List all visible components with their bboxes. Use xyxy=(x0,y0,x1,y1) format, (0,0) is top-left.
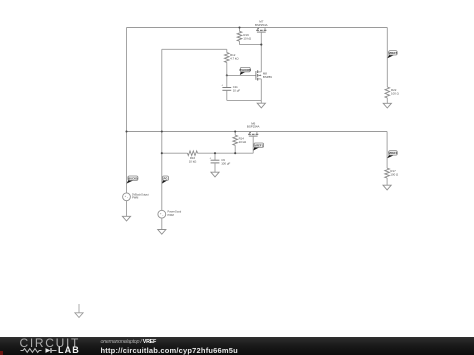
wire rail2 (PowerGood) xyxy=(161,49,163,210)
svg-text:+: + xyxy=(221,84,223,88)
resistor R19 10k xyxy=(237,28,252,45)
ground under R17 xyxy=(383,185,391,190)
transistor M8 (NMOS BSP89) xyxy=(256,70,272,80)
wire gate run xyxy=(198,152,254,154)
wire M6 gate line xyxy=(252,136,254,153)
svg-text:BUCK5: BUCK5 xyxy=(128,176,138,180)
svg-text:10 kΩ: 10 kΩ xyxy=(243,37,251,41)
wire V2 to ground xyxy=(161,218,163,229)
svg-text:BSP254A: BSP254A xyxy=(247,125,260,129)
node gate junction xyxy=(260,44,262,46)
flag net PG xyxy=(162,180,167,184)
svg-text:100 Ω: 100 Ω xyxy=(391,92,400,96)
flag net BUCK5 xyxy=(127,180,134,184)
svg-text:4.7 kΩ: 4.7 kΩ xyxy=(230,56,239,60)
wire M8 gate wire xyxy=(227,74,256,76)
svg-text:10 kΩ: 10 kΩ xyxy=(239,140,247,144)
node gate/cap junction xyxy=(226,74,228,76)
svg-text:BSP254A: BSP254A xyxy=(255,23,268,27)
svg-text:5VBuckOutput: 5VBuckOutput xyxy=(132,192,149,196)
node rail2 crossing xyxy=(161,130,163,132)
ground under M8 xyxy=(260,100,262,103)
svg-text:100 µF: 100 µF xyxy=(221,162,230,166)
wire M8 source down xyxy=(260,79,262,101)
wire cap to ground run xyxy=(227,99,261,101)
voltage source V1 5VBuckOutput xyxy=(123,192,149,200)
svg-text:-: - xyxy=(127,195,128,199)
wire M7 gate line xyxy=(260,32,262,72)
svg-text:PGOOD5: PGOOD5 xyxy=(240,68,252,72)
node R14 bottom junction xyxy=(234,152,236,154)
node rail2 run junction xyxy=(161,152,163,154)
flag net VREF1 xyxy=(253,147,259,151)
ground under R22 xyxy=(383,103,391,108)
flag net PGOOD5 xyxy=(240,71,246,75)
svg-text:VREF5: VREF5 xyxy=(389,51,398,55)
svg-text:PG: PG xyxy=(164,176,168,180)
ground (floating) xyxy=(75,304,83,318)
capacitor C9 100uF xyxy=(209,153,230,172)
wire left rail (5V buck) xyxy=(126,28,128,193)
svg-text:-: - xyxy=(162,213,163,217)
wire V1 to ground xyxy=(126,201,128,217)
ground under C9 xyxy=(211,172,219,177)
node C9 junction xyxy=(214,152,216,154)
svg-text:VREF1: VREF1 xyxy=(254,143,263,147)
node R14 top junction xyxy=(234,130,236,132)
flag net VREF5 xyxy=(387,54,394,58)
resistor R17 100R xyxy=(385,168,399,185)
wire bottom rail xyxy=(127,131,388,133)
transistor M7 (PMOS BSP254A) xyxy=(255,20,268,32)
svg-text:10 kΩ: 10 kΩ xyxy=(189,159,197,163)
resistor R22 100R xyxy=(385,87,400,103)
capacitor C11 10uF xyxy=(221,75,240,100)
wire top rail xyxy=(127,27,388,29)
flag net VREF3 xyxy=(387,155,394,159)
voltage source V2 PowerGood xyxy=(158,210,182,218)
svg-text:PWM: PWM xyxy=(168,213,174,217)
ground under V1 xyxy=(122,216,130,221)
node R19 top junction xyxy=(238,26,240,28)
svg-text:10 µF: 10 µF xyxy=(233,88,241,92)
resistor R12 4.7k xyxy=(225,49,240,75)
svg-text:PWM: PWM xyxy=(132,196,138,200)
transistor M6 (PMOS BSP254A) xyxy=(247,121,260,136)
wire rail2 top horizontal xyxy=(162,48,227,50)
svg-text:BSP89: BSP89 xyxy=(263,75,272,79)
ground under V2 xyxy=(158,230,166,235)
svg-text:+: + xyxy=(209,156,211,160)
wire right rail bottom xyxy=(386,132,388,169)
node bottom-left junction xyxy=(125,130,127,132)
svg-text:VREF3: VREF3 xyxy=(389,151,398,155)
svg-text:100 Ω: 100 Ω xyxy=(390,172,399,176)
svg-text:PowerGood: PowerGood xyxy=(168,210,182,214)
resistor R14 10k xyxy=(233,132,247,154)
wire R19 to gate xyxy=(240,44,262,46)
wire right rail top xyxy=(386,28,388,88)
resistor R16 10k xyxy=(162,151,198,164)
